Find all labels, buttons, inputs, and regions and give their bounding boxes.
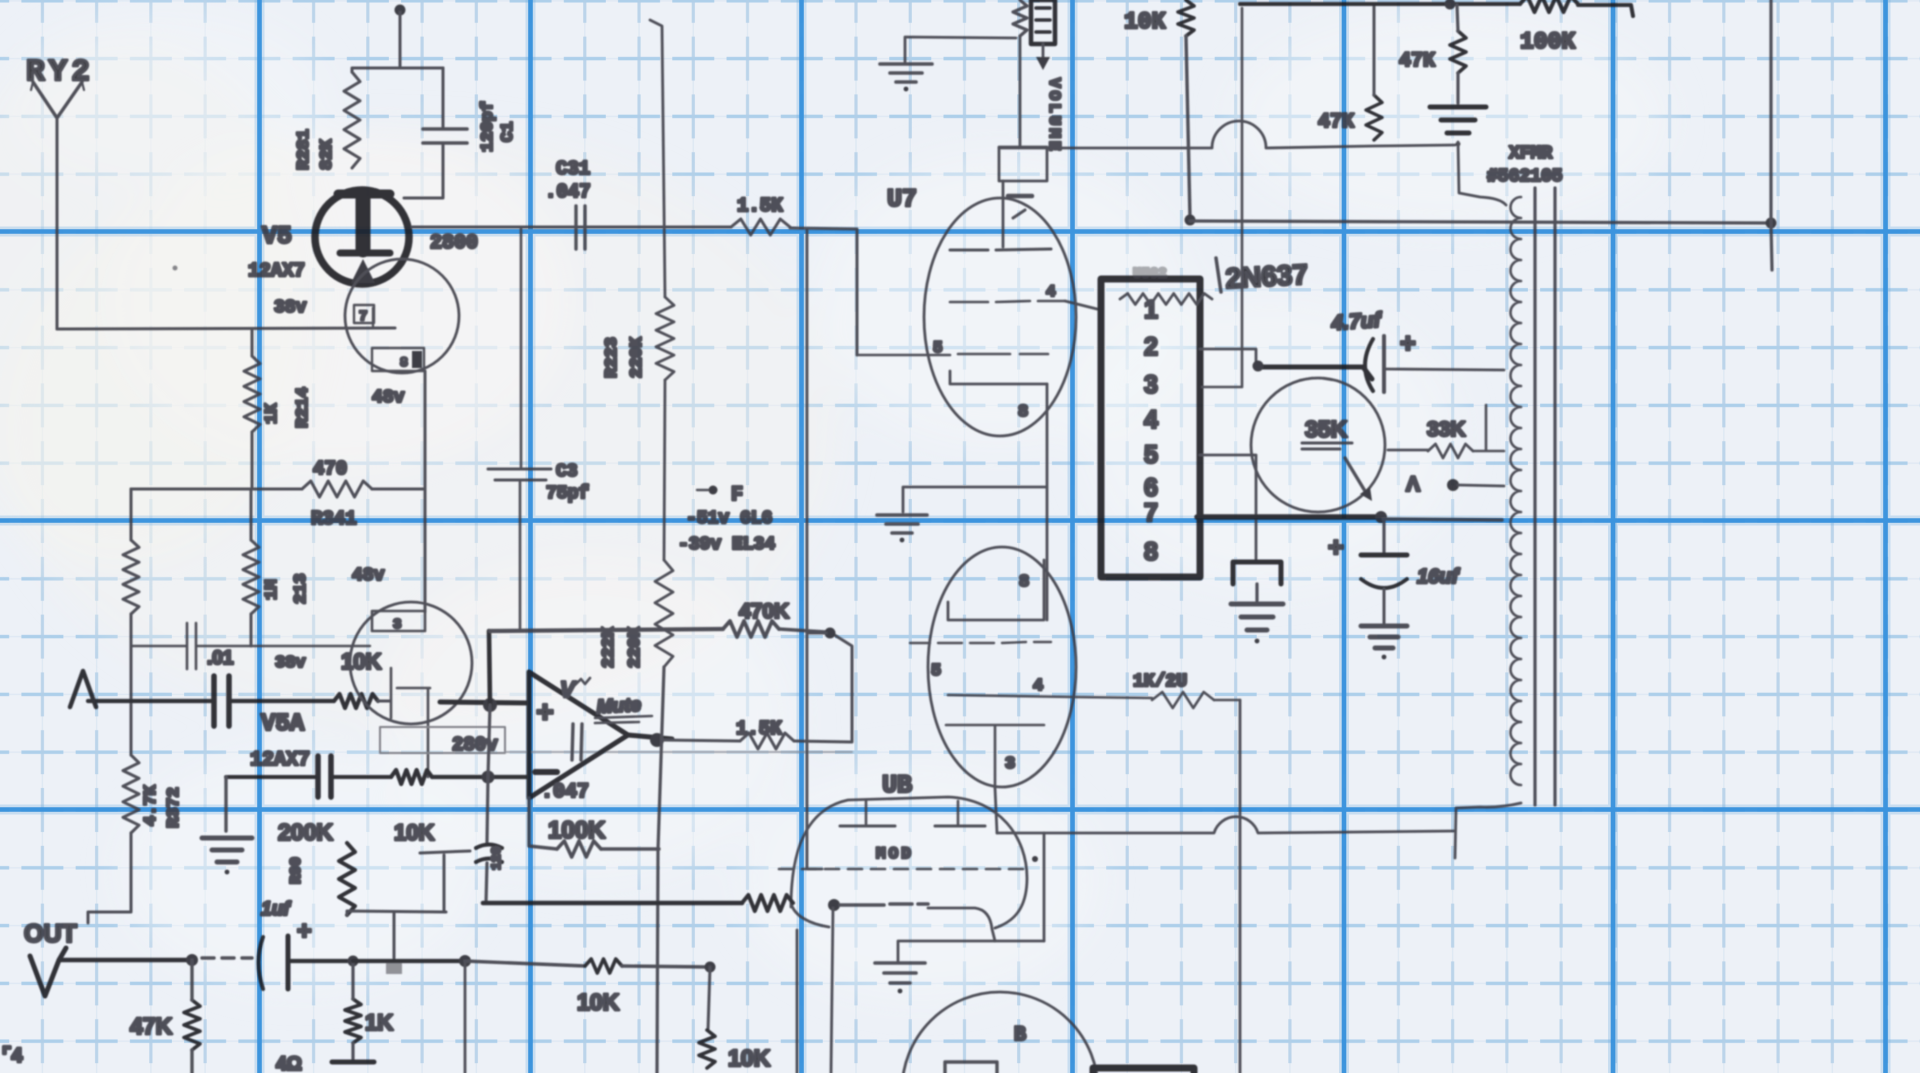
- tube V5 pin7 box: [354, 305, 374, 325]
- tube V5A grid bar: [390, 668, 393, 718]
- svg-text:7: 7: [1144, 499, 1158, 527]
- wire V7 grid4 out: [1065, 301, 1101, 310]
- blob solder: [386, 962, 402, 974]
- ground 47K b: [1430, 107, 1486, 146]
- node rail right dot: [1766, 218, 1777, 229]
- tube V8 cathode: [948, 560, 1044, 620]
- svg-text:100K: 100K: [1520, 29, 1575, 55]
- tube V8 envelope: [928, 547, 1076, 787]
- resistor 200K vertical: [339, 843, 355, 915]
- heavy blue horizontal rules: [0, 232, 1920, 810]
- wire out down: [464, 961, 467, 1073]
- ground V5A cathode: [202, 838, 252, 874]
- svg-text:.047: .047: [541, 781, 589, 804]
- svg-text:10K: 10K: [1124, 9, 1166, 35]
- transistor dashes: [1300, 378, 1332, 380]
- arrow OUT: [30, 948, 66, 996]
- tube V5A plate box: [372, 611, 425, 633]
- tube V7 cathode: [950, 371, 1047, 384]
- wire cap .01: [131, 645, 370, 647]
- input spike: [70, 671, 96, 707]
- node A dot: [1447, 479, 1459, 491]
- wire 1K out: [351, 961, 354, 1060]
- svg-text:+: +: [297, 917, 312, 945]
- svg-text:2: 2: [1144, 333, 1158, 361]
- svg-text:120: 120: [489, 846, 504, 870]
- svg-text:10K: 10K: [394, 820, 434, 845]
- wire pot lead: [1019, 36, 1022, 147]
- resistor 1.5K bus: [731, 219, 790, 235]
- wire winding bottom: [1455, 803, 1521, 858]
- svg-text:MOD: MOD: [876, 845, 914, 863]
- tube V5 envelope: [315, 190, 409, 284]
- tube UB envelope: [791, 797, 1027, 928]
- label 2N637: [1216, 258, 1309, 294]
- svg-text:R223: R223: [603, 337, 622, 378]
- svg-text:R372: R372: [165, 787, 184, 828]
- wire 47K a top: [1373, 5, 1376, 95]
- resistor 33K: [1428, 444, 1473, 458]
- node bus dot: [1445, 0, 1456, 10]
- node rail dot: [1185, 215, 1196, 226]
- svg-text:47K: 47K: [130, 1013, 173, 1039]
- wire C3 top: [520, 228, 523, 467]
- svg-text:-51v 6L6: -51v 6L6: [686, 509, 772, 529]
- capacitor .01: [187, 623, 196, 669]
- resistor 10K fb: [391, 770, 432, 784]
- resistor UB grid: [742, 895, 793, 911]
- svg-text:3: 3: [1005, 755, 1015, 774]
- node out dot4: [705, 962, 716, 973]
- wire input: [88, 699, 213, 703]
- label 35K: [1302, 416, 1352, 449]
- wire x1240 down: [1239, 700, 1242, 1073]
- terminal B+ top: [395, 5, 406, 69]
- wire left chain: [130, 489, 133, 755]
- node out dot1: [186, 954, 198, 966]
- terminal pins 1-8: [1144, 296, 1158, 566]
- wire grid stub: [378, 700, 390, 703]
- svg-text:B: B: [1014, 1024, 1026, 1047]
- tube V5 grid: [340, 250, 390, 257]
- wire gnd stem V5A: [224, 777, 227, 831]
- svg-text:F: F: [731, 484, 743, 507]
- capacitor 16uf: [1361, 555, 1407, 588]
- tube V5A cathode: [397, 688, 430, 777]
- svg-text:12AX7: 12AX7: [248, 260, 305, 282]
- svg-text:10K: 10K: [728, 1045, 771, 1071]
- wire 4.7uf right: [1386, 369, 1504, 370]
- wire antenna down: [56, 118, 59, 329]
- resistor 10K top: [1178, 0, 1194, 36]
- tube V8 plate: [946, 725, 1044, 788]
- resistor 10K bottom: [699, 1030, 715, 1068]
- svg-text:47K: 47K: [1318, 111, 1354, 134]
- svg-text:4: 4: [1033, 677, 1043, 696]
- node F: [697, 484, 743, 507]
- wire UB plate y833: [997, 817, 1455, 833]
- svg-text:3: 3: [1144, 371, 1158, 399]
- resistor 1.5K out: [740, 733, 794, 749]
- svg-text:38v: 38v: [275, 654, 306, 673]
- resistor 470K: [723, 621, 779, 637]
- wire base bold: [1197, 514, 1382, 520]
- svg-text:7: 7: [359, 309, 367, 325]
- wire base ext: [1383, 519, 1502, 520]
- wire gnd stem strip: [1255, 584, 1258, 601]
- resistor R372: [123, 755, 139, 833]
- resistor R222: [655, 560, 673, 667]
- resistor box top: [1120, 294, 1212, 305]
- wire fb left: [529, 798, 557, 849]
- wire minus node down: [489, 631, 490, 705]
- svg-text:V: V: [560, 677, 577, 702]
- wire 47K b: [1457, 5, 1458, 103]
- svg-text:Λ: Λ: [1406, 473, 1420, 496]
- tube V7 grid5: [857, 354, 1048, 355]
- wire R341 right: [372, 488, 425, 491]
- tube V5 cathode2 box: [372, 348, 424, 371]
- tube UB cathode: [928, 908, 995, 941]
- wire V5 plate bus: [412, 226, 731, 229]
- svg-text:470K: 470K: [739, 600, 789, 623]
- wire 200K bottom: [347, 851, 470, 915]
- wire UB pin mid: [831, 908, 833, 1073]
- svg-text:33K: 33K: [1427, 418, 1466, 441]
- node - dot: [482, 771, 495, 784]
- label V mute: [560, 677, 590, 702]
- capacitor C1 leads: [404, 68, 443, 198]
- wire 16uf stem: [1382, 519, 1385, 553]
- svg-text:+: +: [1328, 532, 1344, 562]
- wire cap to R: [331, 775, 391, 779]
- resistor 100K fb: [557, 841, 601, 857]
- wire out to 1.5K: [662, 740, 740, 741]
- svg-text:82K: 82K: [318, 139, 337, 170]
- wire V5 cathode to V5A plate: [424, 371, 427, 612]
- potentiometer box: [1031, 0, 1055, 44]
- wire opamp out: [628, 735, 672, 739]
- node UB grid dot: [1032, 856, 1038, 862]
- svg-text:12AX7: 12AX7: [250, 749, 310, 772]
- label 4.7K R372: [142, 784, 184, 828]
- wire node A: [1458, 485, 1504, 486]
- wire cathode node: [226, 775, 317, 779]
- wire minus node down2: [486, 705, 490, 903]
- svg-text:16uf: 16uf: [1417, 566, 1460, 588]
- wire out dashed: [202, 956, 252, 959]
- svg-text:120pf: 120pf: [479, 101, 498, 152]
- wire 1K2W right: [1214, 699, 1240, 702]
- svg-text:4: 4: [1046, 283, 1056, 301]
- wire 47K out: [190, 960, 193, 1073]
- svg-text:10K: 10K: [577, 989, 620, 1015]
- capacitor C31: [576, 206, 585, 249]
- wire UB grid2: [840, 904, 928, 905]
- svg-text:R214: R214: [294, 387, 313, 428]
- svg-text:+: +: [536, 698, 554, 732]
- wire R341 left: [131, 488, 302, 491]
- svg-text:48v: 48v: [352, 566, 385, 586]
- svg-text:C1: C1: [499, 122, 518, 142]
- svg-text:2N637: 2N637: [1225, 259, 1309, 294]
- wire out 5: [622, 966, 710, 967]
- wire R281 top: [352, 68, 443, 72]
- svg-text:V5A: V5A: [261, 711, 305, 738]
- svg-text:220K: 220K: [626, 626, 645, 668]
- capacitor C3: [488, 469, 551, 480]
- terminal strip box: [1101, 279, 1200, 577]
- resistor 47K b: [1450, 31, 1466, 73]
- svg-text:5: 5: [1144, 441, 1158, 469]
- svg-text:VOLUME: VOLUME: [1045, 78, 1063, 154]
- capacitor 4.7uf: [1365, 336, 1384, 392]
- wire 10K down: [1186, 36, 1190, 218]
- transformer core: [1535, 188, 1555, 805]
- svg-text:R281: R281: [295, 129, 314, 170]
- svg-text:1K: 1K: [263, 403, 282, 424]
- label R281 82K: [295, 129, 337, 170]
- op-amp - sign: [535, 769, 557, 775]
- wire out 3: [353, 959, 465, 963]
- wire rail y221: [1190, 221, 1770, 223]
- wire top bus: [1240, 4, 1633, 16]
- svg-text:4: 4: [1144, 406, 1158, 434]
- svg-text:47K: 47K: [1399, 50, 1435, 73]
- resistor 47K a: [1366, 95, 1382, 140]
- resistor R341: [302, 481, 372, 497]
- svg-text:220K: 220K: [628, 336, 647, 378]
- svg-text:.01: .01: [207, 648, 234, 669]
- svg-text:222K: 222K: [600, 626, 619, 668]
- tube V7 envelope: [924, 198, 1076, 436]
- svg-text:#562105: #562105: [1487, 167, 1563, 187]
- wire chain mid: [664, 380, 665, 560]
- resistor 100K top: [1520, 0, 1578, 12]
- wire 10K down: [708, 967, 710, 1030]
- svg-text:10K: 10K: [341, 649, 381, 674]
- resistor R223: [656, 297, 674, 380]
- wire R214 top: [251, 329, 254, 356]
- resistor 1K/2W: [1152, 692, 1214, 708]
- box 280v: [380, 727, 505, 753]
- op-amp U1: [529, 672, 628, 798]
- ground strip: [1231, 604, 1283, 643]
- wire 470K stub: [808, 632, 826, 635]
- wire out: [60, 958, 192, 962]
- resistor left upper: [123, 540, 139, 614]
- node out dot: [650, 733, 664, 747]
- ground V7 cathode: [877, 515, 927, 542]
- tube B envelope: [902, 992, 1098, 1073]
- tube B cathode: [945, 1062, 997, 1073]
- wire UB cathode bus: [898, 941, 1044, 961]
- resistor grid stopper: [334, 694, 378, 708]
- svg-text:-39v EL34: -39v EL34: [678, 535, 775, 555]
- wire tap to out: [393, 913, 396, 958]
- wire bus right: [790, 228, 857, 355]
- svg-text:8: 8: [400, 355, 408, 370]
- resistor R214: [244, 356, 260, 432]
- wire gnd top: [905, 37, 1016, 64]
- capacitor cathode bypass: [318, 756, 331, 797]
- ground UB cathode: [875, 963, 925, 993]
- node base dot: [1375, 511, 1387, 523]
- wire V7 plate lead: [1002, 181, 1005, 247]
- wire 33K right: [1473, 405, 1504, 451]
- ground 16uf: [1361, 626, 1407, 659]
- wire 470K right: [779, 629, 826, 632]
- wire antenna to V5 pin7: [57, 328, 395, 329]
- svg-text:38v: 38v: [274, 298, 307, 318]
- tube V7 plate bar: [950, 249, 1051, 250]
- wire R372 bottom: [88, 833, 131, 923]
- antenna RY2: [31, 82, 84, 118]
- resistor 1K out: [345, 999, 361, 1043]
- svg-text:8: 8: [1019, 573, 1029, 592]
- svg-text:1K: 1K: [365, 1010, 393, 1035]
- wire right riser: [1771, 0, 1772, 270]
- tube V7 grid4: [950, 301, 1065, 302]
- svg-text:+: +: [1400, 328, 1416, 358]
- tube UB plate1: [840, 801, 895, 826]
- wire faint y752: [505, 751, 852, 753]
- svg-text:R90: R90: [288, 857, 305, 884]
- svg-text:75pf: 75pf: [546, 484, 589, 504]
- wire out 4: [465, 961, 585, 966]
- wire R214 bottom: [251, 432, 254, 489]
- wire 470K left: [490, 629, 723, 631]
- transistor emitter: [1345, 458, 1372, 501]
- svg-text:OUT: OUT: [24, 920, 77, 948]
- label Mute: [595, 695, 652, 723]
- wire R213: [250, 489, 253, 646]
- svg-text:100K: 100K: [548, 817, 606, 844]
- wire chain bottom: [657, 667, 664, 1073]
- wire V7-V8 cathode: [1046, 384, 1049, 620]
- wire box stub 455: [1200, 455, 1256, 562]
- wire chain top hook: [650, 20, 665, 297]
- svg-text:213: 213: [292, 573, 311, 604]
- node + input dot: [483, 698, 497, 712]
- svg-text:8: 8: [1144, 538, 1158, 566]
- svg-text:C31: C31: [556, 158, 590, 180]
- resistor pot top: [1013, 0, 1027, 36]
- wire UB grid bold: [483, 901, 742, 906]
- wire box stub 349: [1200, 349, 1256, 364]
- label 222K 220K: [600, 626, 645, 668]
- tube V5 plate: [338, 194, 390, 250]
- wire V8 grid4 out: [1074, 697, 1152, 698]
- label 1M R213: [263, 573, 311, 604]
- svg-text:⌜4: ⌜4: [2, 1045, 23, 1067]
- wire out 2: [290, 959, 347, 963]
- svg-text:.047: .047: [545, 181, 591, 203]
- label R223 220K: [603, 336, 647, 378]
- wire collector bold: [1253, 361, 1373, 380]
- transistor Q1 2N637: [1251, 378, 1385, 512]
- svg-text:U7: U7: [887, 185, 917, 214]
- wire screen y148: [999, 121, 1455, 148]
- capacitor C1: [423, 129, 467, 143]
- junction box V7 pin1: [999, 147, 1047, 181]
- svg-text:XFMR: XFMR: [1509, 144, 1552, 164]
- svg-text:48v: 48v: [372, 388, 405, 408]
- svg-text:4.7K: 4.7K: [142, 784, 161, 826]
- wire UB right riser: [1043, 833, 1046, 941]
- transformer primary winding: [1511, 197, 1522, 785]
- wire gnd to xfmr: [1458, 142, 1506, 205]
- svg-text:R341: R341: [311, 508, 357, 530]
- tube V5A envelope: [350, 602, 472, 724]
- speck: [173, 266, 178, 271]
- svg-text:1uf: 1uf: [261, 899, 291, 920]
- tube V8 grid4: [948, 695, 1074, 697]
- wire C3 bottom: [519, 482, 522, 630]
- node out dot2: [348, 956, 359, 967]
- wire UB pin left: [796, 930, 799, 1073]
- resistor R281: [344, 72, 360, 168]
- resistor 10K out: [585, 959, 622, 973]
- svg-text:35K: 35K: [1305, 416, 1348, 442]
- wire V8 plate down: [995, 788, 997, 833]
- terminal box bottom: [1093, 1068, 1194, 1073]
- resistor R213: [243, 540, 259, 614]
- svg-text:5: 5: [931, 662, 941, 681]
- svg-text:4Ω: 4Ω: [276, 1054, 302, 1073]
- wire fb right: [601, 847, 659, 850]
- node out dot3: [459, 955, 471, 967]
- wire cathode gnd: [903, 487, 1045, 512]
- tube V5 grid2: [372, 308, 395, 328]
- tube V8 grid5: [910, 642, 1051, 643]
- svg-text:6: 6: [1144, 474, 1158, 502]
- svg-text:UB: UB: [882, 771, 912, 800]
- tube UB plate2: [935, 801, 985, 826]
- tube UB grid dashed: [779, 868, 1028, 871]
- wire 1.5K to node: [794, 634, 852, 742]
- node UB dot: [828, 899, 840, 911]
- svg-text:Mute: Mute: [596, 695, 642, 718]
- wire branch x807: [807, 229, 822, 869]
- svg-text:U562: U562: [1133, 266, 1167, 282]
- svg-text:C3: C3: [556, 462, 578, 482]
- svg-text:2800: 2800: [430, 232, 478, 255]
- wire 16uf down: [1383, 589, 1386, 623]
- wire x1242: [1202, 8, 1242, 387]
- svg-text:3: 3: [393, 617, 401, 633]
- svg-text:200K: 200K: [278, 819, 333, 845]
- tube V5 triode2 envelope: [345, 259, 459, 373]
- svg-text:V5: V5: [262, 222, 292, 251]
- wire V5A to opamp+: [440, 702, 529, 703]
- capacitor input coupling: [214, 676, 229, 726]
- tube V7 pin1 tick: [1008, 196, 1032, 218]
- label 120pf C1: [479, 101, 518, 152]
- svg-text:470: 470: [313, 458, 347, 480]
- svg-text:1.5K: 1.5K: [737, 195, 783, 217]
- label 1K R214: [263, 387, 313, 428]
- resistor 47K out: [184, 1000, 200, 1050]
- bracket cap bold: [1233, 562, 1281, 584]
- capacitor C6: [476, 845, 502, 863]
- capacitor .047 fb: [572, 724, 582, 760]
- svg-text:1M: 1M: [263, 580, 282, 600]
- tube V5 cathode arrow: [351, 259, 375, 283]
- capacitor 1uf: [259, 936, 289, 989]
- ground top middle: [880, 64, 932, 91]
- wire input to grid: [230, 699, 334, 703]
